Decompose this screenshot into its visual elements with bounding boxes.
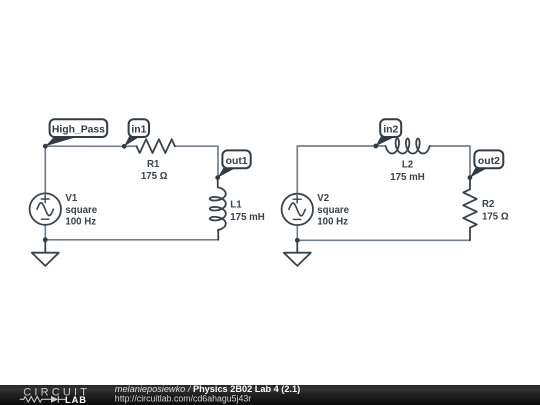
wire: L2 right terminal to corner above R2, down to out2 node — [430, 146, 470, 178]
net label out2 — [470, 150, 503, 177]
wire: top-left node to in1 node (net High_Pass) — [45, 145, 124, 147]
svg-text:L2: L2 — [402, 160, 413, 171]
node junction in1 — [122, 144, 127, 149]
node junction out2 — [468, 175, 473, 180]
svg-text:R1: R1 — [147, 159, 160, 170]
wire: V2 minus terminal down to ground node — [296, 225, 298, 240]
svg-text:100 Hz: 100 Hz — [317, 217, 348, 228]
node junction High_Pass (top-left) — [43, 144, 48, 149]
node junction in2 — [373, 144, 378, 149]
CircuitLab logo: diode triangle — [51, 395, 58, 402]
L1 top lead — [217, 178, 219, 188]
L2 value label — [390, 160, 424, 183]
resistor R1 — [137, 139, 175, 153]
node junction V1 ground — [43, 237, 48, 242]
net label out1 — [218, 150, 251, 177]
wire: L1 bottom lead — [217, 230, 219, 240]
svg-text:V2: V2 — [317, 193, 329, 204]
wire: in2 node to L2 left terminal — [376, 145, 386, 147]
V2 value label — [317, 193, 349, 228]
svg-text:LAB: LAB — [65, 395, 87, 405]
svg-text:out1: out1 — [226, 156, 248, 167]
wire: in1 node to R1 left terminal — [124, 145, 136, 147]
svg-text:175 Ω: 175 Ω — [141, 171, 168, 182]
node junction V2 ground — [295, 238, 300, 243]
svg-text:175 mH: 175 mH — [390, 172, 424, 183]
wire: R1 right terminal to corner above L1, down to out1 node — [175, 146, 218, 177]
voltage source V2 — [282, 194, 313, 225]
svg-text:in2: in2 — [383, 125, 398, 136]
node junction out1 — [215, 175, 220, 180]
ground (left) — [32, 240, 59, 266]
svg-text:R2: R2 — [482, 199, 494, 210]
svg-text:175 Ω: 175 Ω — [482, 212, 509, 223]
svg-text:High_Pass: High_Pass — [52, 125, 105, 136]
svg-text:L1: L1 — [230, 200, 242, 211]
R1 value label — [141, 159, 168, 182]
footer contents (logo + credits) — [0, 385, 540, 405]
wire: R2 bottom lead — [469, 228, 471, 241]
resistor R2 — [463, 189, 477, 227]
wire: R2 top lead — [469, 178, 471, 190]
CircuitLab logo: resistor-diode line — [20, 395, 66, 402]
svg-text:100 Hz: 100 Hz — [65, 217, 96, 228]
L1 value label — [230, 200, 264, 223]
svg-text:in1: in1 — [131, 125, 146, 136]
net label in1 — [124, 119, 149, 146]
footer bar — [0, 385, 540, 405]
R2 value label — [482, 199, 509, 222]
inductor L1 — [210, 187, 226, 230]
wire: V1 minus terminal down to ground node — [44, 225, 46, 240]
wire: top-left node down to V1 plus terminal — [44, 146, 46, 193]
svg-text:http://circuitlab.com/cd6ahagu: http://circuitlab.com/cd6ahagu5j43r — [115, 393, 251, 403]
svg-text:175 mH: 175 mH — [230, 212, 264, 223]
wire: V2 top corner down to V2 plus terminal — [296, 146, 298, 194]
wire: bottom return, V2 ground node to R2 bottom corner — [297, 239, 470, 241]
svg-text:square: square — [65, 205, 97, 216]
net label in2 — [376, 119, 401, 146]
svg-text:square: square — [317, 205, 349, 216]
wire: bottom return, ground node to L1 bottom corner — [45, 239, 218, 241]
svg-text:out2: out2 — [478, 156, 500, 167]
voltage source V1 — [30, 193, 61, 224]
net label High_Pass — [45, 119, 107, 146]
wire: V2 top corner to in2 node — [297, 145, 376, 147]
svg-text:V1: V1 — [65, 193, 77, 204]
ground (right) — [284, 240, 311, 266]
inductor L2 — [386, 138, 430, 153]
V1 value label — [65, 193, 97, 228]
